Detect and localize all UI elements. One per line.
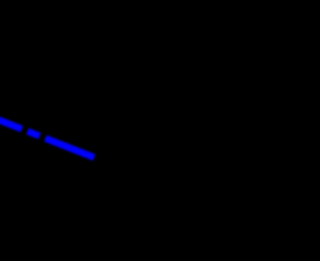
wire: blue line segment 1 (clipped at left edge) [0,120,22,129]
wire: blue line segment 3 (long, solid) [45,138,94,157]
wire: blue dash segment 2 [27,131,39,136]
